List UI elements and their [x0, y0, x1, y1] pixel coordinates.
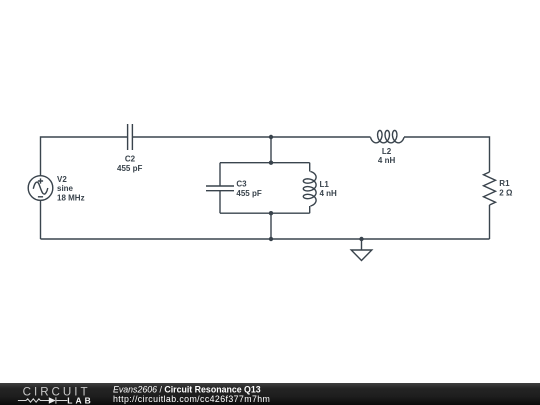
- wire top rail left (V2 top to C2): [41, 137, 128, 176]
- svg-text:L1: L1: [320, 180, 330, 189]
- logo diode triangle: [49, 397, 56, 404]
- resistor R1 zigzag: [484, 172, 496, 205]
- capacitor C3 plates: [206, 186, 234, 191]
- V2 minus sign: [38, 196, 43, 198]
- svg-text:455 pF: 455 pF: [236, 189, 261, 198]
- V2 sine glyph: [33, 182, 48, 194]
- wire bottom rail: [41, 238, 490, 240]
- footer bar: [0, 383, 540, 405]
- wire left rail bottom (V2 bottom to bottom rail): [40, 200, 42, 239]
- svg-text:http://circuitlab.com/cc426f37: http://circuitlab.com/cc426f377m7hm: [113, 394, 270, 404]
- wire tank box right edge upper (to L1): [309, 163, 311, 172]
- inductor L1 coil: [303, 172, 316, 207]
- wire tank box bottom edge: [220, 212, 310, 214]
- svg-text:V2: V2: [57, 175, 67, 184]
- capacitor C2 plates: [128, 124, 133, 150]
- svg-text:18 MHz: 18 MHz: [57, 193, 85, 202]
- V2 plus sign: [38, 178, 43, 183]
- node dot top rail / tank: [269, 135, 273, 139]
- svg-text:C2: C2: [125, 155, 136, 164]
- svg-text:455 pF: 455 pF: [117, 164, 142, 173]
- node dot tank box top: [269, 161, 273, 165]
- node dot ground: [359, 237, 363, 241]
- ground stem: [361, 239, 363, 250]
- svg-text:Evans2606 / Circuit Resonance: Evans2606 / Circuit Resonance Q13: [113, 384, 261, 394]
- svg-text:R1: R1: [499, 179, 510, 188]
- logo resistor squiggle: [18, 397, 67, 403]
- wire tank stem top: [270, 137, 272, 163]
- svg-text:C3: C3: [236, 179, 247, 188]
- wire tank box right edge lower (L1 to bottom): [309, 206, 311, 213]
- node dot tank box bottom: [269, 211, 273, 215]
- wire tank stem bottom: [270, 213, 272, 239]
- wire tank box top edge: [220, 162, 310, 164]
- wire top rail right (L2 to R1 top): [404, 137, 490, 172]
- svg-text:sine: sine: [57, 184, 74, 193]
- wire tank box left edge lower (C3 to bottom): [219, 191, 221, 214]
- ground triangle: [351, 250, 372, 261]
- inductor L2 coil: [371, 130, 405, 142]
- svg-text:4 nH: 4 nH: [320, 189, 338, 198]
- wire tank box left edge upper (to C3): [219, 163, 221, 186]
- svg-text:2 Ω: 2 Ω: [499, 189, 513, 198]
- svg-text:LAB: LAB: [67, 395, 93, 405]
- wire right rail bottom (R1 to bottom rail): [489, 205, 491, 239]
- node dot bottom rail / tank: [269, 237, 273, 241]
- svg-text:L2: L2: [382, 147, 392, 156]
- wire top rail mid (C2 to L2): [132, 136, 370, 138]
- voltage source V2 circle: [28, 176, 53, 201]
- svg-text:4 nH: 4 nH: [378, 156, 396, 165]
